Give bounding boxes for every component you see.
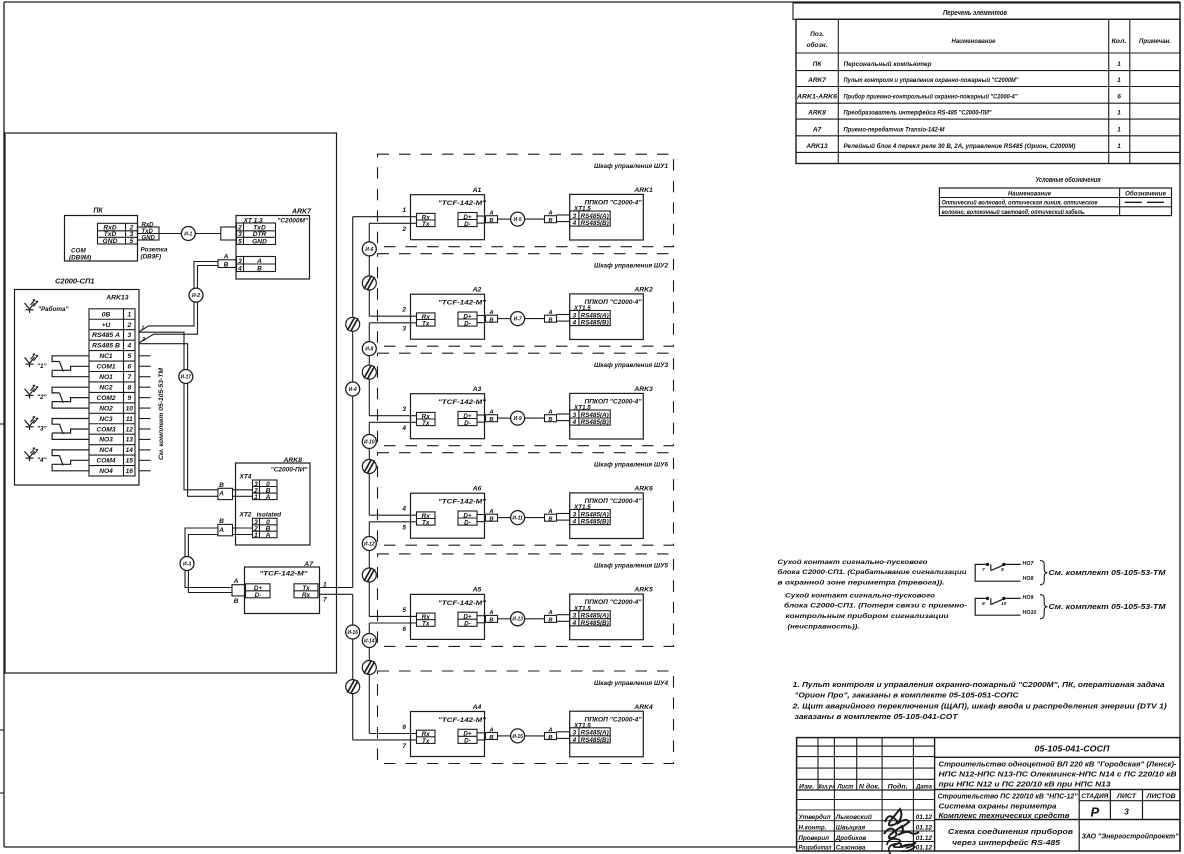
svg-text:"TCF-142-M": "TCF-142-M"	[438, 300, 487, 307]
svg-text:Поз.: Поз.	[810, 31, 824, 38]
cabinet ШУ6	[378, 453, 674, 546]
connector XT1.3 pins 2,3,5	[237, 223, 276, 245]
svg-text:И-4: И-4	[349, 387, 357, 393]
note dry contact 1 text	[778, 558, 968, 587]
fiber splice	[346, 680, 360, 694]
svg-text:NC1: NC1	[99, 353, 113, 360]
panel ARK1 ППКОП C2000-4	[570, 187, 653, 240]
svg-text:2: 2	[401, 226, 406, 233]
svg-text:Tx: Tx	[422, 738, 430, 745]
svg-text:И-13: И-13	[512, 617, 523, 623]
svg-text:D+: D+	[463, 313, 472, 320]
svg-text:ППКОП "C2000-4": ППКОП "C2000-4"	[585, 599, 643, 606]
cable label И-1	[181, 227, 195, 241]
ARK7 serial mating connector	[221, 227, 237, 240]
note dry contact 2 text	[784, 592, 968, 631]
svg-text:10: 10	[1001, 601, 1007, 607]
brace 2	[1040, 595, 1048, 619]
svg-text:A: A	[233, 578, 239, 585]
connector XT4 pins 3,2,1	[253, 480, 278, 500]
svg-text:D-: D-	[464, 221, 471, 228]
LED indicator &quot;2&quot;	[25, 385, 48, 401]
svg-text:RS485(B): RS485(B)	[581, 620, 609, 627]
svg-text:A5: A5	[472, 587, 482, 594]
wire fiber Tx out of cabinet	[369, 322, 416, 324]
cabinet ШУ1	[378, 154, 674, 247]
wire A4 A/B to mating connector	[477, 732, 486, 734]
svg-text:Персональный компьютер: Персональный компьютер	[844, 60, 932, 68]
svg-text:4: 4	[571, 519, 576, 526]
wire to XT1.5 pin 4	[557, 420, 570, 422]
svg-text:блока С2000-СП1. (Потеря связи: блока С2000-СП1. (Потеря связи с приемно…	[784, 602, 968, 610]
svg-text:A: A	[547, 211, 552, 217]
svg-text:блока С2000-СП1. (Срабатывание: блока С2000-СП1. (Срабатывание сигнализа…	[778, 568, 968, 576]
fiber splice	[346, 317, 360, 331]
wire to XT1.5 pin 3	[557, 214, 570, 216]
ARK1 mating connector A/B	[545, 211, 557, 225]
svg-text:RS485(B): RS485(B)	[581, 519, 609, 526]
svg-text:B: B	[257, 266, 262, 273]
svg-text:A4: A4	[472, 704, 482, 711]
svg-text:4: 4	[571, 737, 576, 744]
svg-text:ARK2: ARK2	[633, 287, 653, 294]
ARK2 mating connector A/B	[545, 310, 557, 324]
svg-text:B: B	[548, 618, 552, 624]
svg-text:GND: GND	[252, 238, 267, 245]
wire RS485 cabinet segment	[525, 318, 545, 320]
svg-text:1: 1	[1117, 61, 1121, 68]
svg-text:D+: D+	[463, 731, 472, 738]
svg-text:3: 3	[127, 332, 131, 339]
svg-text:3: 3	[238, 231, 242, 238]
A4 connector Rx/Tx	[417, 730, 436, 743]
svg-text:ARK1-ARK6: ARK1-ARK6	[796, 94, 837, 101]
svg-text:2: 2	[401, 307, 406, 314]
wire to XT1.5 pin 3	[557, 614, 570, 616]
svg-text:(DB9M): (DB9M)	[69, 255, 91, 262]
project description	[939, 760, 1178, 789]
svg-text:ARK1: ARK1	[633, 187, 653, 194]
svg-text:4: 4	[571, 620, 576, 627]
wire RS485 cabinet segment	[525, 517, 545, 519]
wire RS485 cabinet segment	[525, 218, 545, 220]
svg-text:A: A	[488, 610, 493, 616]
svg-text:И-12: И-12	[364, 541, 375, 547]
svg-text:A: A	[547, 727, 552, 733]
svg-text:D+: D+	[463, 614, 472, 621]
svg-text:ARK7: ARK7	[807, 77, 826, 84]
svg-text:Прибор приемно-контрольный охр: Прибор приемно-контрольный охранно-пожар…	[844, 93, 1019, 101]
svg-text:И-14: И-14	[364, 638, 375, 644]
svg-text:ARK3: ARK3	[633, 386, 653, 393]
svg-text:И-15: И-15	[512, 734, 523, 740]
svg-text:См. комплект 05-105-53-ТМ: См. комплект 05-105-53-ТМ	[1049, 568, 1167, 577]
svg-text:Р: Р	[1090, 805, 1099, 820]
relay changeover contact 3	[52, 419, 89, 440]
svg-text:D-: D-	[464, 519, 471, 526]
svg-text:GND: GND	[103, 238, 118, 245]
fiber splice	[362, 460, 376, 474]
interface converter ARK8 C2000-ПИ	[218, 457, 310, 545]
svg-text:Преобразователь интерфейса RS-: Преобразователь интерфейса RS-485 "С2000…	[844, 109, 993, 117]
ARK6 mating connector A/B	[545, 509, 557, 523]
svg-text:7: 7	[402, 743, 406, 750]
cable label И-9	[511, 411, 525, 425]
svg-text:N док.: N док.	[859, 784, 880, 790]
svg-text:"1": "1"	[37, 363, 47, 370]
svg-text:Подп.: Подп.	[888, 784, 908, 790]
cable label И-10	[362, 435, 376, 449]
svg-text:RS485(B): RS485(B)	[581, 220, 609, 227]
svg-text:01.12: 01.12	[916, 835, 933, 842]
svg-text:НО9: НО9	[1023, 595, 1034, 601]
svg-text:Приемо-передатчик Transio-142-: Приемо-передатчик Transio-142-M	[844, 125, 946, 133]
svg-text:ПК: ПК	[93, 208, 103, 215]
svg-text:Лист: Лист	[837, 784, 855, 790]
svg-text:B: B	[489, 417, 493, 423]
svg-text:Rx: Rx	[302, 592, 311, 599]
cable label И-14	[362, 634, 376, 648]
svg-text:A: A	[256, 258, 262, 265]
wire XT2 to A7 D+/D- pair	[185, 528, 232, 588]
svg-text:XT1.5: XT1.5	[573, 305, 591, 312]
svg-text:RS485(A): RS485(A)	[581, 730, 609, 737]
svg-text:COM3: COM3	[96, 426, 115, 433]
svg-text:11: 11	[126, 416, 133, 423]
svg-text:D-: D-	[464, 420, 471, 427]
svg-text:D-: D-	[464, 621, 471, 628]
svg-text:RS485(B): RS485(B)	[581, 737, 609, 744]
A5 connector D+/D-	[458, 612, 477, 626]
wire RS485 B from ARK13 down to ARK8 XT4	[139, 344, 218, 497]
wire PC to ARK7	[159, 233, 181, 235]
svg-text:через интерфейс RS-485: через интерфейс RS-485	[952, 838, 1061, 847]
svg-text:И-1: И-1	[184, 231, 192, 237]
transceiver A6 TCF-142-M	[411, 486, 488, 539]
cable label И-7	[511, 312, 525, 326]
svg-text:Строительство ПС 220/10 кВ "НП: Строительство ПС 220/10 кВ "НПС-12"	[938, 794, 1079, 801]
LED indicator &quot;4&quot;	[25, 448, 48, 464]
svg-text:4: 4	[571, 220, 576, 227]
svg-text:NO2: NO2	[99, 405, 113, 412]
svg-text:XT4: XT4	[239, 474, 252, 481]
wire RS485 cabinet segment	[498, 735, 511, 737]
svg-text:И-6: И-6	[365, 247, 373, 253]
svg-text:ARK5: ARK5	[633, 587, 653, 594]
fiber segment И-8	[368, 323, 370, 416]
svg-text:A: A	[488, 211, 493, 217]
svg-text:2. Щит аварийного переключения: 2. Щит аварийного переключения (ЩАП), шк…	[792, 702, 1168, 711]
svg-text:A: A	[218, 491, 224, 498]
A3 mating connector A/B	[486, 410, 498, 424]
svg-text:ППКОП "C2000-4": ППКОП "C2000-4"	[585, 498, 643, 505]
svg-text:0В: 0В	[102, 311, 111, 318]
ARK13 terminal table pins 1-16	[89, 309, 135, 476]
svg-text:8: 8	[127, 384, 131, 391]
wire to XT1.5 pin 3	[557, 731, 570, 733]
svg-text:Схема соединения приборов: Схема соединения приборов	[948, 827, 1073, 836]
svg-text:RS485 A: RS485 A	[92, 332, 120, 339]
PC unit ПК with COM port DB9M	[65, 208, 138, 262]
svg-text:заказаны в комплекте 05-105-04: заказаны в комплекте 05-105-041-СОТ	[795, 712, 959, 721]
parts list table Перечень элементов	[793, 3, 1180, 164]
object description	[938, 793, 1177, 820]
A2 connector D+/D-	[458, 312, 477, 326]
svg-text:Швыцкая: Швыцкая	[836, 825, 866, 832]
svg-text:ARK13: ARK13	[105, 295, 129, 302]
svg-text:3: 3	[572, 730, 576, 737]
A6 connector Rx/Tx	[417, 512, 436, 525]
svg-text:B: B	[489, 517, 493, 523]
svg-text:4: 4	[571, 320, 576, 327]
svg-text:И-5: И-5	[514, 217, 522, 223]
panel ARK3 ППКОП C2000-4	[570, 386, 653, 439]
optical line symbol	[1125, 201, 1142, 203]
svg-text:Шкаф управления ШУ5: Шкаф управления ШУ5	[594, 563, 668, 570]
svg-text:A: A	[265, 494, 271, 501]
svg-text:1: 1	[1117, 126, 1121, 133]
svg-text:NO3: NO3	[99, 437, 113, 444]
svg-text:"C2000M": "C2000M"	[277, 217, 309, 224]
svg-text:RS485(A): RS485(A)	[581, 412, 609, 419]
svg-text:D+: D+	[463, 512, 472, 519]
wire fiber Rx into cabinet	[369, 514, 416, 516]
svg-text:D+: D+	[463, 413, 472, 420]
svg-text:Шкаф управления ШУ3: Шкаф управления ШУ3	[594, 362, 668, 369]
svg-text:B: B	[489, 618, 493, 624]
svg-text:COM1: COM1	[96, 364, 115, 371]
svg-text:15: 15	[126, 458, 134, 465]
svg-text:С2000-СП1: С2000-СП1	[55, 277, 95, 286]
wire RS485 cabinet segment	[498, 417, 511, 419]
svg-text:A: A	[488, 410, 493, 416]
wire RS485 B from ARK13 pin4 up to ARK7	[139, 266, 218, 344]
svg-text:isolated: isolated	[257, 512, 283, 519]
svg-text:B: B	[548, 318, 552, 324]
svg-text:"Орион Про", заказаны в компле: "Орион Про", заказаны в комплекте 05-105…	[795, 691, 1020, 700]
ARK13 pin stubs 5-16	[139, 356, 151, 471]
svg-text:ППКОП "C2000-4": ППКОП "C2000-4"	[585, 399, 643, 406]
fiber segment И-14	[368, 623, 370, 734]
cable label И-11	[511, 511, 525, 525]
cable label И-4	[346, 382, 360, 396]
svg-text:NO4: NO4	[99, 468, 113, 475]
A6 connector D+/D-	[458, 511, 477, 525]
svg-text:Шкаф управления ШУ4: Шкаф управления ШУ4	[594, 680, 668, 687]
A5 mating connector A/B	[486, 610, 498, 624]
wire fiber Rx into cabinet	[369, 415, 416, 417]
svg-text:НО10: НО10	[1023, 610, 1037, 616]
svg-text:Утвердил: Утвердил	[799, 814, 831, 821]
svg-text:05-105-041-СОСП: 05-105-041-СОСП	[1035, 745, 1110, 754]
svg-text:ARK8: ARK8	[807, 110, 826, 117]
svg-text:Розетка: Розетка	[141, 247, 168, 254]
wire A1 A/B to mating connector	[477, 215, 486, 217]
svg-text:контрольным прибором сигнализа: контрольным прибором сигнализации	[786, 612, 950, 620]
svg-text:ЛИСТОВ: ЛИСТОВ	[1146, 793, 1177, 800]
wire to XT1.5 pin 3	[557, 513, 570, 515]
svg-text:Пульт контроля и управления ох: Пульт контроля и управления охранно-пожа…	[844, 76, 1020, 84]
wire to XT1.5 pin 4	[557, 320, 570, 322]
svg-text:1: 1	[1117, 77, 1121, 84]
wire A2 A/B to mating connector	[477, 315, 486, 317]
transceiver A7 TCF-142-M	[232, 561, 327, 614]
svg-text:6: 6	[402, 626, 406, 633]
svg-text:D-: D-	[255, 592, 262, 599]
A7 mating connector A/B	[232, 585, 246, 596]
svg-text:"Работа": "Работа"	[38, 305, 70, 313]
cable label И-15	[511, 729, 525, 743]
wire RS485 A from ARK13 pin3 up to ARK7	[139, 262, 218, 333]
wire RS485 cabinet segment	[498, 218, 511, 220]
wire to XT1.5 pin 4	[557, 519, 570, 521]
svg-text:RS485(A): RS485(A)	[581, 312, 609, 319]
A4 mating connector A/B	[486, 727, 498, 741]
svg-text:RS485(B): RS485(B)	[581, 419, 609, 426]
svg-text:14: 14	[126, 447, 134, 454]
svg-text:ЗАО "Энергостройпроект": ЗАО "Энергостройпроект"	[1082, 833, 1180, 841]
svg-text:Оптический волновод, оптическа: Оптический волновод, оптическая линия, о…	[942, 199, 1098, 207]
svg-text:3: 3	[238, 258, 242, 265]
svg-text:Примечан.: Примечан.	[1139, 38, 1171, 45]
svg-text:13: 13	[126, 437, 134, 444]
transceiver A5 TCF-142-M	[411, 587, 488, 640]
svg-text:7: 7	[982, 567, 985, 573]
LED indicator &quot;1&quot;	[25, 354, 48, 370]
svg-text:4: 4	[401, 425, 406, 432]
svg-text:волокно, волоконный световод,: волокно, волоконный световод, оптический…	[942, 208, 1086, 216]
svg-text:A: A	[547, 509, 552, 515]
ARK5 connector XT1.5 pins 3,4	[570, 611, 611, 626]
relay contact НО7/НО8	[975, 561, 1034, 582]
svg-text:D+: D+	[254, 585, 263, 592]
svg-text:Tx: Tx	[422, 420, 430, 427]
svg-text:A: A	[488, 509, 493, 515]
fiber 7: A4 Tx up to A7 Rx	[320, 593, 353, 595]
svg-text:A3: A3	[472, 386, 482, 393]
svg-text:A: A	[547, 610, 552, 616]
svg-text:5: 5	[238, 238, 242, 245]
cable label И-16	[346, 625, 360, 639]
wire fiber Rx into cabinet	[369, 733, 416, 735]
svg-text:ARK13: ARK13	[805, 143, 828, 150]
brace 1	[1040, 561, 1048, 585]
svg-text:И-16: И-16	[347, 630, 358, 636]
sheet name	[948, 827, 1179, 847]
svg-text:XT1.5: XT1.5	[573, 722, 591, 729]
A3 connector Rx/Tx	[417, 412, 436, 425]
svg-text:Строительство одноцепной ВЛ 22: Строительство одноцепной ВЛ 220 кВ "Горо…	[939, 760, 1178, 769]
svg-text:ППКОП "C2000-4": ППКОП "C2000-4"	[585, 299, 643, 306]
svg-text:01.12: 01.12	[916, 814, 933, 821]
svg-text:B: B	[219, 518, 224, 525]
A1 connector Rx/Tx	[417, 213, 436, 226]
ARK6 connector XT1.5 pins 3,4	[570, 510, 611, 525]
svg-text:"3": "3"	[37, 426, 47, 433]
svg-text:в охранной зоне периметра (тре: в охранной зоне периметра (тревога)).	[778, 579, 945, 587]
svg-text:ARK4: ARK4	[633, 704, 653, 711]
svg-text:A: A	[218, 527, 224, 534]
svg-text:TxD: TxD	[142, 229, 154, 235]
wire RS485 cabinet segment	[498, 318, 511, 320]
svg-text:Tx: Tx	[302, 585, 310, 592]
fiber splice	[362, 661, 376, 675]
svg-text:Проверил: Проверил	[799, 835, 830, 842]
svg-text:Наименование: Наименование	[1008, 190, 1051, 197]
wire fiber Tx out of cabinet	[369, 521, 416, 523]
legend table Условные обозначения	[939, 175, 1171, 216]
cable label И-12	[362, 537, 376, 551]
svg-text:Дата: Дата	[915, 784, 933, 790]
svg-text:3: 3	[572, 412, 576, 419]
wire fiber Rx into cabinet	[369, 615, 416, 617]
ARK7 RS485 mating connector A/B	[218, 260, 237, 268]
svg-text:B: B	[224, 262, 229, 269]
wire to XT1.5 pin 3	[557, 413, 570, 415]
svg-text:И-3: И-3	[183, 561, 191, 567]
svg-text:"TCF-142-M": "TCF-142-M"	[438, 499, 487, 506]
svg-text:NC2: NC2	[99, 384, 113, 391]
svg-text:НО7: НО7	[1023, 561, 1035, 567]
wire fiber Tx out of cabinet	[369, 222, 416, 224]
svg-text:Н.контр.: Н.контр.	[799, 825, 827, 832]
svg-text:NC4: NC4	[99, 447, 113, 454]
svg-text:RS485(B): RS485(B)	[581, 320, 609, 327]
svg-text:"TCF-142-M": "TCF-142-M"	[438, 717, 487, 724]
svg-text:GND: GND	[142, 235, 156, 241]
svg-text:Tx: Tx	[422, 321, 430, 328]
svg-text:ARK7: ARK7	[291, 209, 312, 216]
svg-text:(неисправность)).: (неисправность)).	[788, 624, 860, 631]
svg-text:2: 2	[126, 322, 131, 329]
wire fiber Tx out of cabinet	[369, 421, 416, 423]
transceiver A3 TCF-142-M	[411, 386, 488, 439]
ARK4 mating connector A/B	[545, 727, 557, 741]
svg-text:3: 3	[402, 406, 406, 413]
svg-text:1: 1	[141, 325, 144, 331]
svg-text:9: 9	[982, 601, 985, 607]
A5 connector Rx/Tx	[417, 613, 436, 626]
transceiver A1 TCF-142-M	[411, 187, 488, 240]
svg-text:5: 5	[402, 525, 406, 532]
svg-text:A: A	[265, 532, 271, 539]
svg-text:1. Пульт контроля и управления: 1. Пульт контроля и управления охранно-п…	[793, 680, 1165, 689]
svg-text:Шкаф управления ШУ1: Шкаф управления ШУ1	[594, 163, 668, 170]
fiber 1: A7 Tx up to ШУ1 A1 Rx	[320, 587, 353, 589]
title block separators	[935, 757, 1180, 851]
A4 connector D+/D-	[458, 729, 477, 743]
svg-text:B: B	[489, 735, 493, 741]
svg-text:1: 1	[1117, 110, 1121, 117]
svg-text:4: 4	[571, 419, 576, 426]
svg-text:3: 3	[572, 213, 576, 220]
svg-text:Лыковский: Лыковский	[835, 814, 872, 821]
svg-text:Перечень элементов: Перечень элементов	[943, 8, 1008, 17]
svg-text:И-7: И-7	[514, 317, 522, 323]
cable label И-5	[511, 212, 525, 226]
cable label И-8	[362, 342, 376, 356]
fiber segment И-12	[368, 522, 370, 617]
wire A6 A/B to mating connector	[477, 514, 486, 516]
A2 mating connector A/B	[486, 310, 498, 324]
svg-text:НО8: НО8	[1023, 576, 1034, 582]
svg-text:"2": "2"	[37, 394, 47, 401]
svg-text:8: 8	[1001, 567, 1004, 573]
cable label И-6	[362, 242, 376, 256]
wire fiber Rx into cabinet	[369, 315, 416, 317]
A7 connector D+/D-	[246, 584, 271, 598]
svg-text:B: B	[489, 318, 493, 324]
